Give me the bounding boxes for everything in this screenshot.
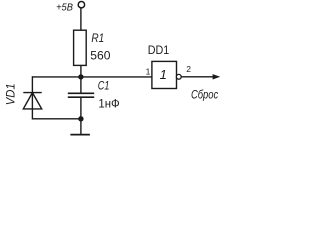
svg-text:DD1: DD1 (148, 43, 170, 57)
ground (70, 119, 90, 135)
logic gate DD1 (inverter) body (152, 61, 177, 88)
svg-text:1: 1 (146, 66, 151, 76)
svg-text:560: 560 (90, 49, 111, 63)
arrow (213, 74, 221, 79)
svg-text:VD1: VD1 (3, 83, 17, 105)
node junction bottom (78, 116, 83, 121)
wire R1 to rail (80, 65, 82, 77)
resistor R1 (74, 30, 87, 65)
wire terminal to R1 (80, 8, 82, 30)
terminal +5V (78, 1, 84, 7)
wire diode top lead (31, 76, 33, 119)
wire bottom (32, 118, 81, 120)
wire output (181, 76, 215, 78)
node junction top (78, 74, 83, 79)
diode VD1 (23, 93, 41, 109)
svg-text:C1: C1 (98, 78, 110, 92)
svg-text:2: 2 (186, 64, 191, 74)
svg-text:1нФ: 1нФ (98, 97, 119, 111)
svg-text:1: 1 (160, 67, 167, 82)
output bubble (176, 74, 181, 79)
capacitor C1 (68, 77, 94, 119)
svg-text:Сброс: Сброс (191, 87, 218, 101)
svg-text:R1: R1 (91, 31, 104, 45)
svg-text:+5В: +5В (56, 3, 73, 14)
wire rail (32, 76, 151, 78)
